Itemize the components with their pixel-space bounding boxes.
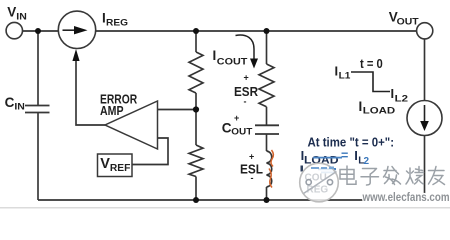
ICOUT hook arrow [236, 35, 255, 58]
inductor ESL [267, 151, 272, 187]
svg-text:I: I [391, 86, 395, 101]
svg-text:2: 2 [364, 156, 370, 167]
svg-text:IN: IN [14, 101, 25, 112]
svg-text:=: = [341, 149, 348, 163]
watermark logo circle [300, 163, 339, 202]
svg-text:At time "t = 0+":: At time "t = 0+": [308, 136, 395, 150]
bottom border line [0, 207, 450, 209]
resistor R1 (divider top) [189, 52, 203, 93]
node divider top [193, 28, 199, 34]
wire error amp output to IREG [76, 60, 105, 125]
svg-text:AMP: AMP [100, 103, 124, 118]
svg-text:www.elecfans.com: www.elecfans.com [362, 190, 450, 204]
wire right branch upper [424, 39, 426, 101]
svg-text:-: - [251, 173, 254, 183]
wire bottom rail [38, 199, 425, 201]
label COUT with polarity [222, 113, 253, 138]
svg-text:LOAD: LOAD [363, 106, 396, 117]
wire ESR to COUT [266, 107, 268, 126]
label IL2 [391, 86, 409, 104]
wire ESR branch top lead [266, 31, 268, 64]
svg-text:+: + [249, 152, 254, 162]
wire divider middle [195, 93, 197, 145]
svg-text:V: V [7, 4, 16, 19]
note ILOAD = IL2 line 2 [301, 148, 370, 167]
wire top rail [23, 30, 59, 32]
node COUT bottom [264, 197, 270, 203]
terminal VIN [6, 22, 22, 38]
svg-text:I: I [335, 64, 339, 79]
svg-text:COUT: COUT [217, 56, 248, 67]
label IL1 [335, 64, 352, 82]
label ESL with polarity [240, 152, 263, 184]
label VOUT [389, 10, 419, 28]
watermark ghost blue dashes [311, 167, 334, 170]
wire ESL bottom lead [266, 187, 268, 200]
label ERROR AMP [100, 92, 138, 118]
label ILOAD [359, 99, 396, 117]
node feedback [193, 106, 199, 112]
svg-text:C: C [222, 120, 232, 135]
svg-text:L1: L1 [339, 71, 352, 82]
ghost blue strike line 2 [313, 157, 342, 159]
wire top rail right of IREG [96, 30, 417, 32]
svg-text:IN: IN [16, 12, 27, 23]
wire COUT to ESL [266, 134, 268, 151]
wire left rail upper [37, 31, 39, 106]
capacitor COUT plates [255, 124, 279, 126]
orange watermark squiggle on ESL [271, 150, 273, 167]
svg-text:OUT: OUT [397, 16, 419, 27]
current source ILOAD [407, 101, 442, 136]
wire error amp top input [158, 109, 197, 111]
svg-text:L2: L2 [395, 93, 408, 104]
svg-text:-: - [244, 97, 247, 107]
svg-text:C: C [5, 95, 15, 110]
svg-text:REF: REF [110, 162, 131, 174]
label ESR with polarity [234, 73, 259, 107]
label CIN [5, 95, 25, 113]
label IREG [102, 10, 128, 28]
svg-text:t = 0: t = 0 [360, 57, 383, 71]
wire VREF to inverting input [132, 138, 168, 165]
control arrow into IREG [72, 49, 79, 61]
svg-text:I: I [213, 48, 217, 63]
node COUT top [264, 28, 270, 34]
op-amp U1 error amp [105, 101, 158, 149]
svg-text:I: I [354, 148, 358, 163]
svg-text:REG: REG [106, 18, 128, 29]
wire left rail lower [37, 113, 39, 201]
current source IREG [58, 11, 95, 48]
resistor R2 (divider bottom) [189, 145, 203, 177]
label VREF [100, 156, 131, 174]
svg-text:I: I [359, 99, 363, 114]
wire divider bottom lead [195, 177, 197, 201]
node divider bottom [193, 197, 199, 203]
wire right branch lower [424, 135, 426, 200]
ghost line 3 [301, 166, 304, 172]
label VIN [7, 4, 27, 22]
watermark Chinese text (drawn strokes) [340, 166, 445, 185]
VREF box [98, 154, 133, 177]
svg-text:+: + [234, 113, 239, 123]
step waveform t=0 [351, 72, 390, 92]
resistor ESR [259, 64, 274, 107]
svg-text:+: + [244, 73, 249, 83]
wire divider top lead [195, 31, 197, 52]
svg-text:V: V [100, 156, 110, 172]
capacitor CIN plates [25, 105, 50, 107]
node VIN junction [35, 28, 41, 34]
svg-text:OUT: OUT [231, 126, 252, 137]
terminal VOUT [417, 23, 433, 39]
label ICOUT [213, 48, 248, 67]
